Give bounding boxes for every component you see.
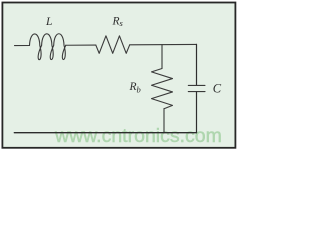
- inductor L: [30, 34, 66, 60]
- wire right branch down to capacitor: [196, 44, 198, 85]
- wire Rb bottom stub: [163, 109, 165, 133]
- wire between L and Rs: [66, 44, 96, 46]
- node T-junction stub to Rb: [161, 45, 163, 69]
- wire Rs to top-right corner: [130, 43, 197, 45]
- wire capacitor to bottom rail: [196, 92, 198, 133]
- wire bottom rail: [14, 132, 196, 134]
- wire top-left lead: [15, 45, 30, 47]
- resistor R_s: [96, 36, 130, 54]
- resistor R_b (vertical): [152, 69, 173, 109]
- svg-text:Rs: Rs: [112, 15, 124, 28]
- capacitor C plates: [188, 85, 205, 91]
- svg-text:L: L: [45, 16, 52, 28]
- panel background with frame: [2, 3, 235, 148]
- svg-text:C: C: [213, 81, 222, 95]
